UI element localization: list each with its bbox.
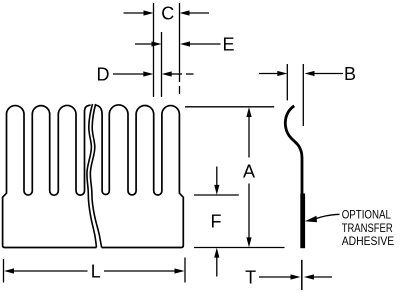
dim L right arrow <box>104 270 177 272</box>
leader arrow <box>316 214 340 219</box>
ext line B right <box>302 64 304 126</box>
dim E right arrow <box>190 43 221 45</box>
svg-text:E: E <box>222 35 234 55</box>
ext line T <box>301 260 303 290</box>
ext line L left <box>3 259 5 283</box>
svg-text:OPTIONAL: OPTIONAL <box>342 208 391 222</box>
dim B right arrow <box>313 73 343 75</box>
svg-text:F: F <box>211 212 222 232</box>
dim D left arrow <box>113 73 145 75</box>
ext line E/D right (x=161.5) <box>161 32 163 97</box>
dim T left arrow <box>259 276 292 278</box>
ext line C/D left (x=153.5) <box>153 3 155 97</box>
dim C right arrow <box>190 12 210 14</box>
svg-text:L: L <box>91 262 101 282</box>
ext line F top <box>194 194 239 196</box>
svg-text:ADHESIVE: ADHESIVE <box>342 234 395 248</box>
dim D dash <box>186 73 194 75</box>
dim E left arrow <box>135 43 153 45</box>
dim A bottom arrow <box>248 184 250 240</box>
svg-text:T: T <box>245 268 256 288</box>
adhesive bar <box>300 194 305 249</box>
side profile hook + stem <box>285 106 302 248</box>
svg-text:C: C <box>161 4 174 24</box>
ext line bottom <box>194 247 285 249</box>
break line 2 <box>90 104 101 248</box>
ext line L right <box>184 258 186 283</box>
dim L left arrow <box>12 270 88 272</box>
svg-text:TRANSFER: TRANSFER <box>342 221 393 235</box>
svg-text:D: D <box>97 65 110 85</box>
dim B left arrow <box>259 73 279 75</box>
ext line B left <box>286 64 288 100</box>
dim C left arrow <box>124 12 146 14</box>
ext line C/E right (x=179.5) <box>179 3 181 82</box>
dim F bottom arrow <box>216 256 218 277</box>
heatsink outline <box>3 105 184 248</box>
svg-text:B: B <box>344 64 356 84</box>
dim F top arrow <box>216 167 218 188</box>
svg-text:A: A <box>243 162 255 182</box>
dim A top arrow <box>248 115 250 158</box>
break line 1 <box>87 104 96 248</box>
ext line A top <box>185 106 274 108</box>
dim D right arrow <box>170 73 182 75</box>
dim T right arrow <box>312 276 332 278</box>
